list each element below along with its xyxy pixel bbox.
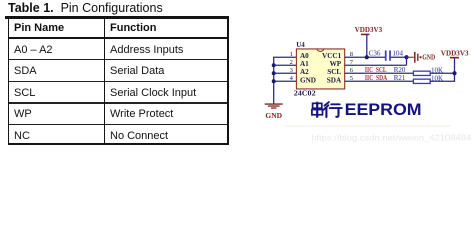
- wire cap to node: [391, 56, 407, 58]
- wire pin5 SDA: [345, 80, 414, 82]
- wire VDD3V3 stem: [366, 34, 368, 57]
- svg-text:A1: A1: [300, 60, 309, 68]
- table title: [8, 1, 163, 15]
- right border: [227, 16, 229, 146]
- svg-text:104: 104: [393, 50, 404, 58]
- wire pin6 SCL: [345, 72, 414, 74]
- wire node down to WP: [406, 57, 408, 65]
- row 3: [14, 87, 35, 99]
- junction dot rail-SCL: [452, 71, 456, 75]
- wire R21 to rail corner: [430, 80, 454, 82]
- header bottom border: [8, 37, 229, 39]
- resistor R21 body: [413, 79, 430, 83]
- svg-text:A0: A0: [300, 52, 309, 60]
- row line 3: [8, 102, 229, 103]
- wire node to GND bar: [407, 56, 414, 58]
- svg-text:GND: GND: [265, 111, 282, 120]
- column divider: [104, 19, 105, 146]
- svg-text:1: 1: [290, 51, 293, 58]
- svg-text:IIC SCL: IIC SCL: [365, 66, 387, 74]
- svg-text:IIC SDA: IIC SDA: [365, 74, 387, 82]
- decorative faint line: [284, 125, 450, 127]
- junction dot bus-A1: [272, 63, 276, 67]
- svg-text:VDD3V3: VDD3V3: [441, 49, 469, 58]
- table bottom border: [8, 143, 229, 146]
- svg-text:EEPROM: EEPROM: [345, 100, 422, 119]
- ground symbol left: [265, 104, 283, 108]
- wire pin7 WP: [345, 64, 407, 66]
- junction dot bus-GND: [272, 79, 276, 83]
- svg-text:GND: GND: [300, 76, 316, 84]
- wire pin2 A1: [273, 64, 297, 66]
- IC notch: [317, 49, 324, 51]
- IC U4 body 24C02: [296, 49, 344, 89]
- svg-text:C36: C36: [369, 50, 381, 58]
- power VDD3V3 bar (right): [450, 57, 459, 59]
- capacitor C36 plates: [385, 50, 387, 60]
- svg-text:R21: R21: [394, 74, 406, 82]
- resistor R20 body: [413, 71, 430, 75]
- junction dot bus-A2: [272, 71, 276, 75]
- row 5: [14, 130, 30, 142]
- svg-text:2: 2: [290, 59, 293, 66]
- ground bar symbol right: [414, 52, 416, 63]
- svg-text:VCC1: VCC1: [322, 52, 342, 60]
- header cells: [14, 22, 64, 34]
- table top border: [5, 16, 229, 19]
- wire pin1 A0: [273, 56, 297, 58]
- wire: left bus vertical: [273, 57, 275, 103]
- svg-text:U4: U4: [296, 41, 305, 49]
- row 4: [14, 108, 32, 120]
- svg-text:R20: R20: [394, 66, 406, 74]
- row line 4: [8, 124, 229, 125]
- junction dot node: [404, 55, 408, 59]
- svg-text:24C02: 24C02: [294, 89, 316, 97]
- svg-text:https://blog.csdn.net/weixin_4: https://blog.csdn.net/weixin_42108484: [311, 133, 471, 143]
- svg-text:SCL: SCL: [327, 68, 341, 76]
- row line 1: [8, 59, 229, 60]
- wire pin8 VCC1: [345, 56, 386, 58]
- left border: [8, 16, 9, 146]
- wire pin4 GND: [273, 80, 297, 82]
- row 2: [14, 65, 37, 77]
- wire right rail vertical: [454, 58, 456, 82]
- wire R20 to rail: [430, 72, 454, 74]
- svg-text:SDA: SDA: [327, 76, 342, 84]
- svg-text:3: 3: [290, 67, 293, 74]
- row line 2: [8, 81, 229, 82]
- svg-text:A2: A2: [300, 68, 309, 76]
- power VDD3V3 bar (left): [361, 33, 369, 35]
- svg-text:VDD3V3: VDD3V3: [355, 25, 383, 34]
- caption glyph 行: [324, 102, 342, 117]
- caption glyph 串: [312, 102, 323, 118]
- junction dot VCC-VDD: [365, 55, 369, 59]
- wire pin3 A2: [273, 72, 297, 74]
- row 1: [14, 44, 53, 56]
- svg-text:WP: WP: [330, 60, 342, 68]
- svg-text:GND: GND: [422, 54, 435, 62]
